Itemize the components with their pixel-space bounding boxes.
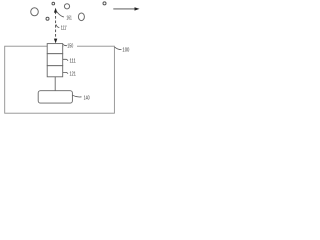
wire: connector from stack to 140 [54,77,56,91]
white gap behind label 150 [63,43,77,48]
horizontal arrow (top right) [113,8,135,10]
outer box 100 [5,46,115,113]
svg-text:150: 150 [67,43,73,49]
dashed vertical line 111' [55,12,57,40]
box 140 [38,91,72,103]
leader 111 [63,59,68,61]
layer cell 150 (top) [47,44,63,54]
leader 111' [56,24,59,27]
circle (droplet) B [46,17,49,20]
svg-text:111: 111 [70,59,76,65]
svg-text:111': 111' [61,26,67,32]
leader 150 [63,44,67,45]
leader 140 [73,95,82,97]
svg-text:140: 140 [84,96,90,102]
leader 100 [115,47,122,50]
leader 161 [57,12,64,18]
circle (droplet) C [52,2,55,5]
circle (droplet) A [31,8,39,16]
circle (droplet) F [103,2,106,5]
svg-text:121: 121 [70,72,76,78]
layer cell 121 (bottom) [47,66,63,77]
background [0,0,142,120]
svg-text:100: 100 [122,48,129,54]
arrowhead up (tip of 161 arrow) [54,8,57,13]
layer cell 111 (middle) [47,54,63,66]
leader 121 [63,72,68,73]
svg-text:161: 161 [66,16,71,22]
circle (droplet) D [64,4,69,9]
arrowhead down (onto layer stack) [54,39,57,44]
circle (droplet) E [78,13,84,21]
